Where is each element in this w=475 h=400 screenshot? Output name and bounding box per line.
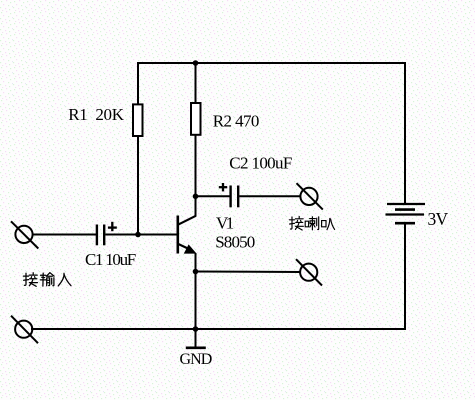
label 接喇叭 (connect speaker) [289,216,334,230]
wire emitter branch [195,253,197,329]
svg-text:C1 10uF: C1 10uF [85,250,136,269]
svg-text:R1 20K: R1 20K [68,105,125,124]
input terminal 2 [11,316,38,344]
battery 3V [386,204,426,223]
transistor V1 [178,216,196,254]
resistor R2 [191,103,201,135]
wire C2 right segment to speaker terminal [239,195,300,197]
wire R2 / collector branch [195,62,197,217]
svg-text:GND: GND [180,351,212,368]
C1 polarity plus [108,222,117,231]
svg-text:3V: 3V [428,209,449,229]
speaker terminal 2 [296,259,322,285]
wire R1 branch [137,62,139,235]
junction bottom rail / GND [193,326,199,332]
C2 polarity plus [219,183,227,191]
input terminal 1 [11,221,38,248]
svg-text:R2 470: R2 470 [213,112,259,131]
speaker terminal 1 [297,183,323,209]
wire C1 to base [105,234,177,236]
capacitor C1 [97,225,104,246]
svg-text:C2 100uF: C2 100uF [229,154,292,173]
svg-text:S8050: S8050 [215,232,255,251]
junction collector / C2 [193,194,199,200]
svg-text:V1: V1 [216,214,234,233]
junction emitter / speaker wire [193,269,199,275]
wire bottom rail [31,328,406,330]
wire C2 left segment [196,195,230,197]
label 接输入 (connect input) [23,273,71,287]
wire right rail upper [404,62,406,204]
resistor R1 [133,104,143,136]
ground symbol stub [195,329,197,348]
ground symbol bar [186,346,206,349]
capacitor C2 [231,186,239,208]
wire input to C1 [33,234,97,236]
junction top rail / R2 [193,60,199,66]
wire right rail lower [404,223,406,330]
transistor emitter arrow [184,244,197,253]
wire top rail [137,62,406,64]
junction R1 / base wire [135,232,141,238]
wire emitter to speaker terminal 2 [196,271,301,274]
